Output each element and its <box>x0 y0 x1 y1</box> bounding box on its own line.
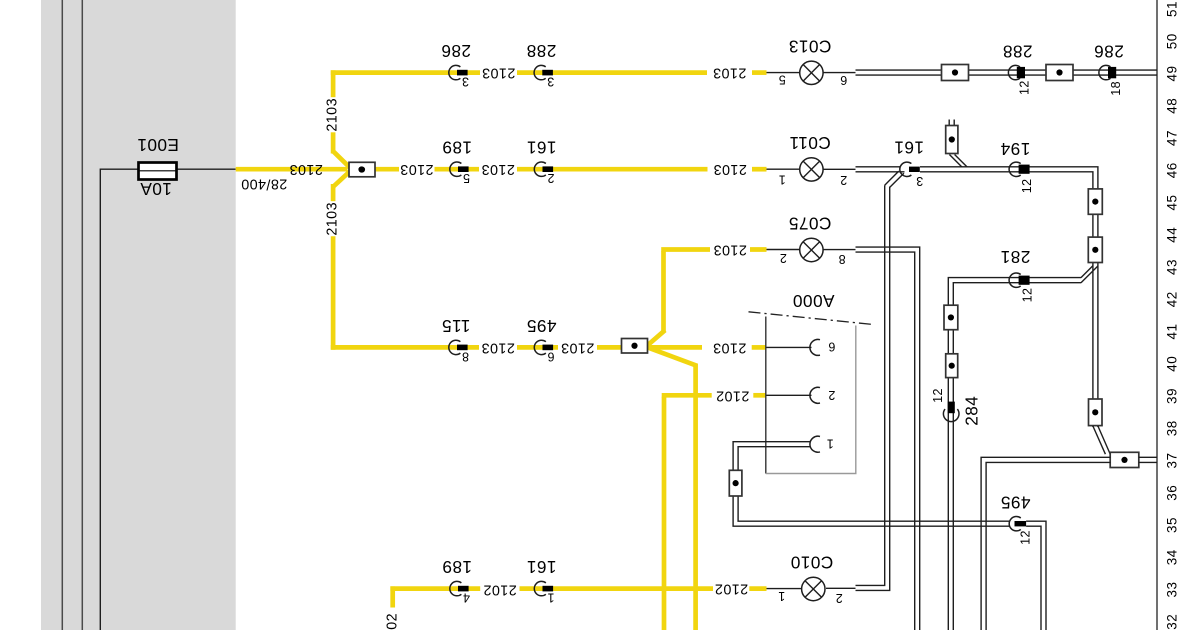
svg-text:3: 3 <box>916 174 923 188</box>
svg-text:39: 39 <box>1165 388 1180 404</box>
pair 281 row lower <box>953 283 1081 630</box>
wire row3 segment c <box>597 345 621 350</box>
svg-text:33: 33 <box>1165 582 1180 598</box>
svg-text:2103: 2103 <box>561 339 595 355</box>
wire vertical 2103 upper a <box>331 70 336 97</box>
svg-text:495: 495 <box>1000 493 1030 513</box>
svg-text:2103: 2103 <box>289 161 323 177</box>
label 28/400 <box>241 175 287 191</box>
terminal 115 row3 <box>442 316 471 363</box>
svg-text:38: 38 <box>1165 420 1180 436</box>
terminal 189 bottom <box>442 557 472 604</box>
svg-text:189: 189 <box>442 557 472 577</box>
pair C011 stub lower <box>856 171 905 173</box>
svg-text:161: 161 <box>526 557 556 577</box>
svg-text:40: 40 <box>1165 356 1180 372</box>
svg-text:2103: 2103 <box>713 65 747 81</box>
fuse 10A label <box>140 179 172 199</box>
component A000 outline left <box>765 317 767 474</box>
svg-text:2102: 2102 <box>483 581 517 597</box>
svg-text:34: 34 <box>1165 549 1180 565</box>
svg-text:189: 189 <box>442 138 472 158</box>
junction box pin1 col <box>729 470 742 496</box>
pair vertical 887 inner <box>856 185 885 585</box>
wire E001 right <box>177 168 236 170</box>
pair branch diag a <box>949 155 962 168</box>
wire row2 segment d <box>752 167 767 172</box>
pair diag to vertical a <box>885 171 899 185</box>
svg-text:C011: C011 <box>789 133 831 153</box>
svg-text:284: 284 <box>961 396 981 426</box>
junction box row37 <box>1110 452 1139 467</box>
label 2103 row1 right <box>713 65 747 81</box>
svg-text:47: 47 <box>1165 130 1180 146</box>
junction box right col b <box>1088 237 1102 262</box>
wire bottom row b <box>520 586 714 591</box>
svg-text:2103: 2103 <box>481 339 515 355</box>
wire C075 row b <box>750 247 767 252</box>
pair 281 diag b <box>1081 266 1098 283</box>
svg-text:194: 194 <box>1000 139 1030 159</box>
wire row3 A000 stub b <box>752 345 767 350</box>
svg-text:42: 42 <box>1165 291 1180 307</box>
svg-text:2: 2 <box>828 388 835 402</box>
junction box 161 branch <box>946 126 958 154</box>
svg-text:28/400: 28/400 <box>241 175 287 191</box>
wire row3 A000 stub a <box>648 345 703 350</box>
svg-text:18: 18 <box>1109 81 1123 96</box>
lamp C075 <box>779 214 845 266</box>
wire row2 segment c <box>517 167 708 172</box>
svg-text:C010: C010 <box>790 553 833 573</box>
svg-text:8: 8 <box>838 252 845 266</box>
svg-text:286: 286 <box>1094 42 1124 62</box>
junction box right col c <box>1089 399 1103 426</box>
svg-text:51: 51 <box>1165 1 1180 17</box>
A000 pin 1 arc <box>810 436 820 452</box>
svg-text:2103: 2103 <box>325 202 341 236</box>
junction box row2 <box>349 162 375 177</box>
svg-text:E001: E001 <box>137 135 179 155</box>
junction dot row2 dot <box>358 166 364 172</box>
svg-text:12: 12 <box>1019 530 1033 545</box>
label 2102 bottom right <box>714 581 748 597</box>
terminal 189 row2 <box>442 138 472 185</box>
svg-text:161: 161 <box>526 138 556 158</box>
pair C011 stub upper <box>856 166 901 168</box>
wire C075 row a <box>661 247 710 252</box>
pair branch vert a <box>948 120 950 128</box>
svg-text:12: 12 <box>1021 288 1035 303</box>
terminal 161 row2 <box>526 138 556 185</box>
pair row37 lower <box>986 462 1110 630</box>
wire C011 lead right <box>823 168 856 170</box>
svg-text:12: 12 <box>1018 80 1032 95</box>
label 02 vertical <box>384 613 400 630</box>
panel border line 1 <box>61 0 63 630</box>
svg-text:1: 1 <box>778 173 785 187</box>
label 2103 row2 d <box>713 161 747 177</box>
svg-text:2103: 2103 <box>713 242 747 258</box>
junction box row3 <box>622 339 648 354</box>
wire 2103 main row2 <box>236 167 348 172</box>
svg-text:8: 8 <box>462 349 469 363</box>
svg-text:12: 12 <box>931 388 945 403</box>
svg-text:2102: 2102 <box>714 581 748 597</box>
wire row1 segment b <box>517 70 707 75</box>
svg-text:43: 43 <box>1165 259 1180 275</box>
label 2103 vertical lower <box>325 202 341 236</box>
lamp C011 <box>778 133 847 187</box>
terminal 194 <box>1000 139 1034 193</box>
terminal 495 pair <box>1000 493 1032 545</box>
fuse E001 box <box>139 163 177 180</box>
terminal 495 row3 <box>526 316 556 363</box>
pair 495 corner lower <box>1026 526 1041 630</box>
svg-text:35: 35 <box>1165 517 1180 533</box>
svg-text:281: 281 <box>1000 247 1030 267</box>
svg-text:3: 3 <box>547 75 554 89</box>
svg-text:36: 36 <box>1165 485 1180 501</box>
wire diag up junction2 <box>646 330 665 346</box>
wire C013 lead left <box>767 72 801 74</box>
svg-text:44: 44 <box>1165 227 1180 243</box>
junction box 284 col b <box>946 354 958 378</box>
wire 2102 row a <box>662 393 712 398</box>
pair branch vert b <box>953 120 955 128</box>
wire vertical 2103 lower b <box>331 236 336 349</box>
label 2103 row1 mid <box>482 65 516 81</box>
svg-text:02: 02 <box>384 613 400 630</box>
left gray panel <box>41 0 236 630</box>
pair row37 to ruler upper <box>1139 456 1157 458</box>
svg-text:2103: 2103 <box>713 161 747 177</box>
wire E001 to panel <box>100 169 138 630</box>
pair 194 row lower <box>920 172 1093 427</box>
terminal 286 pair <box>1094 42 1124 96</box>
label 2103 C075 <box>713 242 747 258</box>
ruler numbers 51-32 <box>1165 1 1180 630</box>
svg-text:2103: 2103 <box>481 161 515 177</box>
pair 281 diag a <box>1081 266 1093 278</box>
lamp C010 <box>778 553 843 606</box>
svg-text:2103: 2103 <box>482 65 516 81</box>
pair pin1 line b <box>738 447 1009 522</box>
A000 pin 2 arc <box>810 387 820 403</box>
wire row3 segment a <box>331 345 479 350</box>
wire vertical C075 branch <box>661 251 666 331</box>
junction box right col a <box>1088 189 1102 214</box>
svg-text:32: 32 <box>1165 614 1180 630</box>
terminal 161 bottom <box>526 557 556 604</box>
wire vertical 695 down <box>693 364 698 631</box>
pair row37 to ruler lower <box>1139 461 1157 463</box>
pair 281 row upper <box>948 278 1081 630</box>
svg-text:6: 6 <box>828 340 835 354</box>
pair jog diag a <box>1093 426 1106 454</box>
wire C011 lead left <box>767 168 801 170</box>
svg-text:286: 286 <box>441 41 471 61</box>
svg-text:115: 115 <box>442 316 471 336</box>
wire vertical 2103 upper b <box>331 132 336 153</box>
label 2103 pin6 <box>713 339 747 355</box>
wire vertical 2103 lower a <box>331 184 336 201</box>
svg-text:2103: 2103 <box>713 339 747 355</box>
svg-text:3: 3 <box>462 75 469 89</box>
label 2102 pin2 <box>716 387 750 403</box>
pair vertical 887 outer <box>856 187 890 591</box>
svg-text:6: 6 <box>840 73 847 87</box>
svg-text:45: 45 <box>1165 195 1180 211</box>
lamp C013 <box>778 37 847 88</box>
wire diag down junction2 <box>646 347 697 366</box>
label 2103 row3 a <box>481 339 515 355</box>
label A000 <box>793 291 835 311</box>
label 2103 row2 b <box>400 161 434 177</box>
svg-text:495: 495 <box>526 316 556 336</box>
svg-text:1: 1 <box>778 589 785 603</box>
junction box 284 col a <box>944 305 958 330</box>
svg-text:12: 12 <box>1020 178 1034 193</box>
terminal 284 <box>931 388 981 426</box>
wire row2 segment a <box>375 167 399 172</box>
wire row2 segment b <box>435 167 480 172</box>
svg-text:41: 41 <box>1165 324 1180 340</box>
component A000 dash-dot boundary <box>749 312 875 325</box>
svg-text:46: 46 <box>1165 162 1180 178</box>
label 2102 bottom mid <box>483 581 517 597</box>
label 2103 row2 left <box>289 161 323 177</box>
panel border line 2 <box>81 0 83 630</box>
svg-text:4: 4 <box>463 591 470 605</box>
pair pin1 line a <box>733 442 1009 527</box>
svg-text:288: 288 <box>1002 42 1032 62</box>
svg-text:2: 2 <box>835 591 842 605</box>
wire row1 segment a <box>331 70 480 75</box>
label 2103 vertical upper <box>325 98 341 132</box>
A000 pin 6 number <box>828 340 835 354</box>
wire vertical 664 down <box>662 397 667 630</box>
svg-text:5: 5 <box>778 73 785 87</box>
pair C013 row lower <box>856 74 1158 76</box>
wire row1 segment c <box>752 70 767 75</box>
ruler line <box>1156 0 1158 630</box>
svg-text:37: 37 <box>1165 453 1180 469</box>
pair 194 row upper <box>920 167 1098 427</box>
pair C013 row upper <box>856 69 1158 71</box>
svg-text:2: 2 <box>840 173 847 187</box>
component A000 outline bottom-right <box>766 326 856 474</box>
wire diag up junction1 <box>333 151 351 169</box>
wire A000 pin6 lead <box>767 346 812 348</box>
wire C010 lead right <box>826 587 856 589</box>
pair diag to vertical b <box>890 173 904 187</box>
wire bottom stub down <box>390 586 395 607</box>
terminal 288 pair <box>1002 42 1032 95</box>
wire C010 lead left <box>767 588 802 590</box>
svg-text:161: 161 <box>894 137 924 157</box>
svg-text:2103: 2103 <box>400 161 434 177</box>
svg-text:C075: C075 <box>788 214 831 234</box>
A000 pin 2 number <box>828 388 835 402</box>
A000 pin 6 arc <box>810 339 820 355</box>
pair 495 corner upper <box>1026 521 1046 630</box>
svg-text:1: 1 <box>826 436 833 450</box>
svg-text:2: 2 <box>779 251 786 265</box>
wire C013 lead right <box>823 72 856 74</box>
svg-text:10A: 10A <box>140 179 172 199</box>
svg-text:49: 49 <box>1165 66 1180 82</box>
terminal 281 <box>1000 247 1034 302</box>
wire row3 segment b <box>517 345 558 350</box>
wire bottom row c <box>749 586 766 591</box>
wire 2102 row b <box>753 393 766 398</box>
label 2103 row2 c <box>481 161 515 177</box>
svg-text:A000: A000 <box>793 291 835 311</box>
svg-text:2103: 2103 <box>325 98 341 132</box>
terminal 286 row1 <box>441 41 471 88</box>
svg-text:6: 6 <box>547 349 554 363</box>
svg-text:2: 2 <box>547 171 554 185</box>
svg-text:1: 1 <box>547 591 554 605</box>
pair jog diag b <box>1098 426 1111 456</box>
junction box row49 a <box>942 65 969 81</box>
svg-text:5: 5 <box>463 171 470 185</box>
pair C075 row outer <box>856 247 920 630</box>
pair branch diag b <box>955 155 967 167</box>
wire C075 lead right <box>823 249 856 251</box>
svg-text:48: 48 <box>1165 98 1180 114</box>
svg-text:2102: 2102 <box>716 387 750 403</box>
label 2103 row3 b <box>561 339 595 355</box>
wire diag down junction1 <box>333 170 351 187</box>
wire A000 pin2 lead <box>767 394 812 396</box>
svg-text:288: 288 <box>526 41 556 61</box>
terminal 288 row1 <box>526 41 556 88</box>
pair row37 upper <box>981 457 1110 630</box>
svg-text:C013: C013 <box>788 37 831 57</box>
wire bottom row a <box>390 586 480 591</box>
terminal 161 bend <box>894 137 924 187</box>
svg-text:50: 50 <box>1165 33 1180 49</box>
A000 pin 1 number <box>826 436 833 450</box>
junction box row49 b <box>1046 65 1073 81</box>
wire C075 lead left <box>767 249 801 251</box>
pair C075 row inner <box>856 252 915 630</box>
fuse E001 label <box>137 135 179 155</box>
